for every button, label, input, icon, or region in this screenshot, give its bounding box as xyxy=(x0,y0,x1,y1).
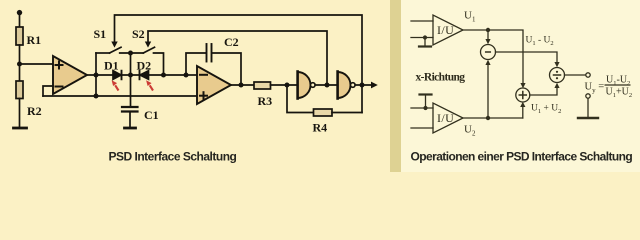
wire U1 out xyxy=(463,30,523,83)
arrow into minus top xyxy=(487,30,489,40)
op-amp U1 xyxy=(53,56,87,94)
svg-text:U1+U2: U1+U2 xyxy=(606,87,633,100)
svg-text:Operationen einer PSD Interfac: Operationen einer PSD Interface Schaltun… xyxy=(411,150,633,164)
terminal top-left xyxy=(17,10,22,15)
node C2 return xyxy=(239,83,244,88)
ground flipped xyxy=(423,106,427,110)
inverter gate 1 xyxy=(298,72,311,98)
svg-text:R1: R1 xyxy=(27,33,42,47)
resistor R1 xyxy=(16,27,23,45)
wire R2 to ground xyxy=(19,99,21,128)
control S1 xyxy=(115,15,363,113)
I/U converter 2 xyxy=(433,103,463,133)
arrow into plus top xyxy=(520,83,525,88)
photodiode light arrow 2 xyxy=(150,85,153,90)
summing node plus xyxy=(516,88,530,102)
svg-text:C2: C2 xyxy=(224,35,239,49)
svg-text:U1 + U2: U1 + U2 xyxy=(531,104,561,116)
resistor R3 xyxy=(254,82,271,89)
svg-text:R4: R4 xyxy=(313,121,328,135)
output arrow xyxy=(371,82,378,89)
svg-text:D1: D1 xyxy=(104,58,119,72)
inverter gate 2 xyxy=(338,72,351,98)
wire gate1 to gate2 xyxy=(315,84,337,86)
node D1-D2 xyxy=(128,73,133,78)
wire op-amp1 out xyxy=(87,74,113,76)
wire op-amp inverting input xyxy=(43,86,53,96)
wire minus out xyxy=(496,52,558,63)
diode D2 xyxy=(139,71,141,80)
node bus S2 drop xyxy=(128,51,133,56)
op-amp U2 xyxy=(197,66,231,104)
node R4 tap xyxy=(285,83,290,88)
wire plus out xyxy=(530,88,557,96)
wire R1 to R2 xyxy=(19,45,21,81)
node S1 feedback xyxy=(360,83,365,88)
input wires xyxy=(411,20,433,22)
wire gate2 out xyxy=(355,84,371,86)
ground output xyxy=(578,117,598,119)
arrow into plus bottom xyxy=(522,107,524,119)
backgrounds xyxy=(0,0,390,172)
summing node minus xyxy=(481,45,496,60)
svg-text:U1 - U2: U1 - U2 xyxy=(526,36,554,48)
arrow into minus bottom xyxy=(487,65,489,119)
wire bus drop to D junction xyxy=(130,53,132,107)
wire divider out xyxy=(565,74,586,76)
svg-text:D2: D2 xyxy=(137,58,152,72)
capacitor C2 feedback xyxy=(186,53,206,75)
svg-text:R3: R3 xyxy=(258,94,273,108)
wire feedback rail xyxy=(43,95,197,97)
wire D2 to node xyxy=(149,74,187,76)
output terminal ref xyxy=(586,94,590,98)
diode D1 xyxy=(113,71,121,80)
wire R4 branch xyxy=(287,85,314,113)
node divider mid xyxy=(17,62,22,67)
svg-text:S1: S1 xyxy=(94,27,107,41)
node rail xyxy=(94,94,99,99)
wire R3 to gate xyxy=(271,84,298,86)
wire node to op-amp + xyxy=(20,63,54,65)
node S2 feedback xyxy=(325,83,330,88)
switch S2 xyxy=(143,47,154,53)
svg-text:C1: C1 xyxy=(144,108,159,122)
wire R4 to gate2 out xyxy=(332,112,362,114)
svg-text:PSD Interface Schaltung: PSD Interface Schaltung xyxy=(109,150,237,164)
svg-text:I/U: I/U xyxy=(437,111,454,125)
wire bus drop xyxy=(95,53,97,96)
wire to op-amp2 inverting xyxy=(186,74,197,76)
svg-text:I/U: I/U xyxy=(437,23,454,37)
wire U2 out xyxy=(463,117,523,119)
node D2 right xyxy=(161,73,166,78)
capacitor C1 xyxy=(122,106,138,108)
wire terminal to R1 xyxy=(19,13,21,27)
svg-text:S2: S2 xyxy=(132,27,145,41)
ground C1 xyxy=(125,127,136,130)
output terminal Uy xyxy=(586,73,590,77)
resistor R4 xyxy=(314,109,333,116)
wire D1 to node xyxy=(122,74,140,76)
photodiode light arrow 1 xyxy=(112,80,153,90)
svg-text:x-Richtung: x-Richtung xyxy=(416,72,466,84)
I/U converter 1 xyxy=(433,15,463,45)
ground xyxy=(14,127,27,130)
switch S1 xyxy=(96,52,110,54)
divider node xyxy=(550,68,565,83)
node C2 tap xyxy=(184,73,189,78)
node op-amp out xyxy=(94,73,99,78)
control S2 xyxy=(148,31,327,85)
ground xyxy=(423,35,427,39)
svg-text:R2: R2 xyxy=(27,104,42,118)
formula bar xyxy=(605,84,631,86)
wire op-amp2 out xyxy=(231,84,254,86)
resistor R2 xyxy=(16,81,23,99)
